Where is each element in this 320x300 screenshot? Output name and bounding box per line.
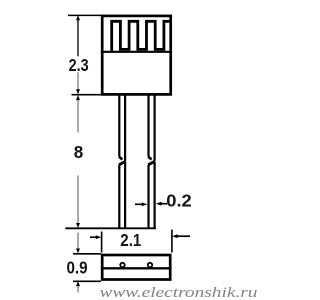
dimension line 8 (lower segment) (77, 176, 79, 225)
lead hole left (120, 263, 124, 267)
body divider line between element area and base (101, 51, 172, 53)
svg-text:2.1: 2.1 (120, 230, 141, 250)
2.1 left arrow (90, 236, 97, 238)
dimension line 8 (upper segment) (77, 99, 79, 132)
arrow down at base top (76, 249, 80, 254)
svg-text:0.2: 0.2 (166, 191, 192, 211)
arrow up at body bottom (start of 8) (76, 95, 80, 100)
2.1 extension line left (101, 232, 103, 253)
left lead outline (upper segments) (118, 94, 120, 156)
extension line bottom of body (72, 94, 101, 96)
right lead break mark (148, 157, 151, 160)
left lead break mark (119, 157, 122, 160)
base divider line (101, 267, 172, 269)
lead hole right (148, 263, 152, 267)
arrow up at body top (76, 15, 80, 20)
svg-text:2.3: 2.3 (69, 55, 89, 75)
svg-text:8: 8 (74, 142, 84, 162)
svg-text:www.electronshik.ru: www.electronshik.ru (100, 285, 258, 300)
left lead outline (lower segments) (118, 165, 120, 229)
right lead outline (lower segments) (147, 165, 149, 229)
base (bottom view) outline (102, 255, 170, 280)
0.2 left arrow (135, 203, 143, 205)
arrow up at base bottom (76, 281, 80, 286)
dimension line 2.3 (upper segment) (77, 17, 79, 56)
dimension line 2.3 (lower segment) (77, 72, 79, 90)
dimension stub 0.9 bottom (77, 285, 79, 293)
2.1 right arrow (176, 235, 190, 237)
dimension stub 0.9 top (77, 233, 79, 250)
arrow down at body bottom (76, 89, 80, 94)
svg-text:0.9: 0.9 (67, 257, 88, 277)
right lead outline (upper segments) (147, 94, 149, 156)
extension line lead ends (65, 227, 156, 229)
arrow down at lead ends (76, 223, 80, 228)
component body (front view) outline (102, 16, 171, 95)
extension line top of body (68, 14, 101, 16)
extension line base top (73, 253, 101, 255)
sensing element meander trace (112, 21, 171, 52)
0.2 right arrow (160, 203, 167, 205)
2.1 extension line right (171, 230, 173, 253)
extension line base bottom (73, 280, 101, 282)
